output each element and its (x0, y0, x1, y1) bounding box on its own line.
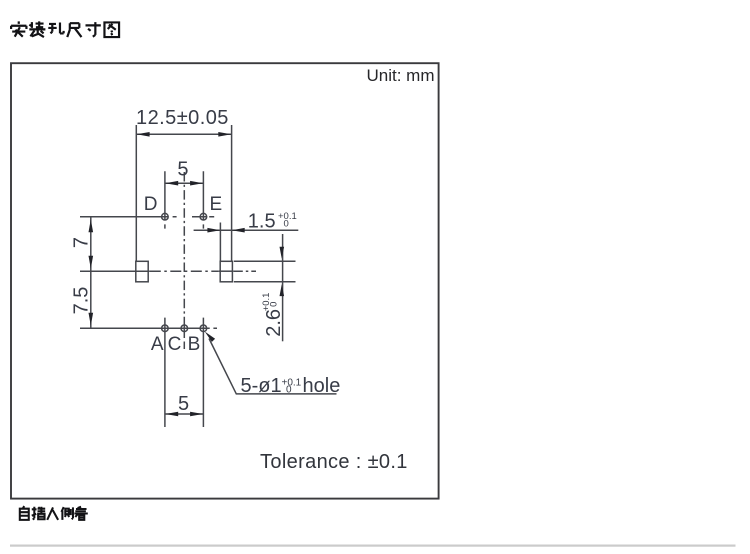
svg-text:A: A (151, 334, 164, 355)
svg-text:12.5±0.05: 12.5±0.05 (136, 107, 229, 129)
svg-text:B: B (188, 334, 201, 355)
svg-text:5: 5 (178, 393, 189, 415)
svg-text:Unit: mm: Unit: mm (367, 66, 435, 85)
svg-text:D: D (144, 194, 158, 215)
svg-text:E: E (210, 194, 223, 215)
svg-text:7.5: 7.5 (70, 287, 92, 315)
svg-text:0: 0 (286, 385, 292, 396)
svg-text:C: C (168, 334, 182, 355)
svg-text:7: 7 (70, 237, 92, 248)
svg-text:0: 0 (269, 302, 280, 307)
svg-text:hole: hole (303, 375, 341, 397)
svg-text:1.5: 1.5 (248, 211, 276, 233)
svg-text:+0.1: +0.1 (282, 378, 302, 389)
svg-text:Tolerance : ±0.1: Tolerance : ±0.1 (260, 451, 408, 473)
svg-text:5-ø1: 5-ø1 (241, 375, 282, 397)
svg-text:5: 5 (177, 159, 188, 181)
svg-text:0: 0 (284, 219, 289, 230)
svg-text:2.6: 2.6 (263, 309, 285, 337)
